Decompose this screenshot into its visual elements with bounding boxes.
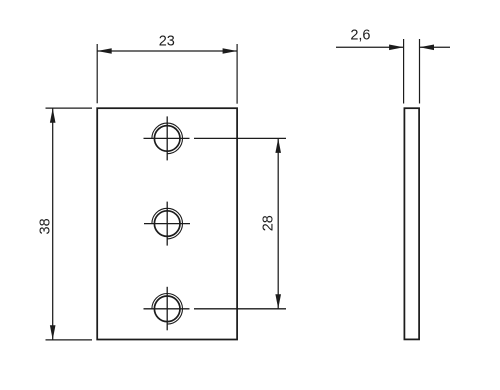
dim 2,6 leader line right [420,46,451,48]
hole H3 center line extension (to 28 dim) [194,308,286,310]
hole H2 thread arc (outer, gap lower-left) [152,208,183,239]
hole H3 thread arc (outer, gap lower-left) [152,294,183,325]
hole H1 center line extension (to 28 dim) [194,137,286,139]
dim 38 extension line top [46,107,93,109]
hole H1 horizontal center line (through hole) [144,137,190,139]
dim 28 arrow top [275,138,281,153]
hole H1 vertical center line [166,116,168,160]
dim 23 dimension line [97,50,237,52]
dim 38 extension line bottom [46,339,93,341]
dim 38 arrow bottom [50,325,56,340]
hole H3 vertical center line [166,287,168,331]
hole H2 (middle) inner circle [154,211,180,237]
hole H1 thread arc (outer, gap lower-left) [152,123,183,154]
dim 2,6 arrow right (points left) [420,45,435,51]
svg-text:2,6: 2,6 [350,28,370,44]
dim 23 extension line right [236,44,238,104]
hole H2 vertical center line [166,202,168,246]
dim 2,6 arrow left (points right) [389,45,404,51]
hole H1 (top) inner circle [154,126,180,152]
svg-text:23: 23 [159,34,175,50]
dim 23 arrow left [97,48,112,54]
hole H3 (bottom) inner circle [154,296,180,322]
dim 38 arrow top [50,108,56,123]
dim 38 dimension line [52,108,54,340]
hole H2 horizontal center line [144,223,190,225]
svg-text:38: 38 [37,218,53,234]
dim 2,6 extension line left [403,39,405,104]
dim 28 dimension line [277,138,279,308]
hole H3 horizontal center line (through hole) [144,308,190,310]
dim 23 arrow right [223,48,238,54]
dim 2,6 extension line right [419,39,421,104]
plate front view outline [97,108,237,339]
dim 28 arrow bottom [275,294,281,309]
dim 2,6 leader line left [336,46,404,48]
dim 23 extension line left [96,44,98,103]
svg-text:28: 28 [261,215,277,231]
plate side view outline [404,108,419,339]
